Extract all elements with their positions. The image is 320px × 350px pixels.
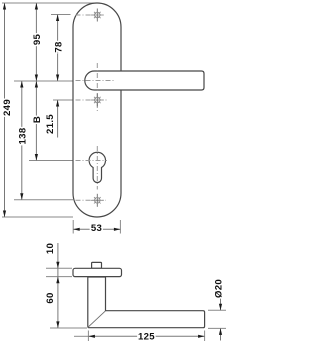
svg-text:125: 125 xyxy=(138,331,155,342)
svg-text:78: 78 xyxy=(53,41,64,53)
svg-text:95: 95 xyxy=(32,34,43,46)
svg-text:138: 138 xyxy=(17,127,28,144)
svg-text:10: 10 xyxy=(45,243,56,254)
svg-text:Ø20: Ø20 xyxy=(213,279,224,298)
svg-text:B: B xyxy=(32,116,43,123)
svg-text:249: 249 xyxy=(2,99,13,116)
svg-text:53: 53 xyxy=(91,223,102,234)
svg-text:60: 60 xyxy=(45,292,56,303)
svg-text:21.5: 21.5 xyxy=(45,114,56,134)
